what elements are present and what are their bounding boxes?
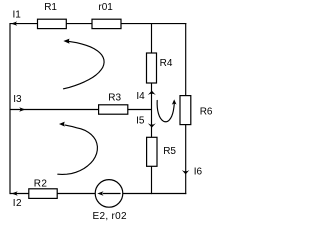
source E2 internal arrow	[103, 193, 121, 195]
current arrow I3	[19, 107, 25, 111]
wire right vertical upper	[185, 23, 187, 96]
svg-text:R4: R4	[160, 58, 173, 69]
svg-text:R3: R3	[108, 92, 121, 103]
svg-text:R5: R5	[163, 146, 176, 157]
svg-text:r01: r01	[98, 2, 113, 13]
wire top-left segment	[10, 23, 38, 25]
wire R2 to source E2	[57, 193, 95, 195]
mesh loop arrow right	[157, 100, 174, 121]
wire R3 to middle node	[128, 109, 152, 111]
svg-text:R1: R1	[44, 2, 57, 13]
resistor R2	[29, 189, 57, 199]
svg-text:I6: I6	[194, 167, 203, 178]
wire between R1 and r01	[66, 23, 92, 25]
resistor R1	[38, 19, 67, 28]
wire middle vertical upper (top node to R4)	[151, 23, 153, 53]
svg-text:R2: R2	[34, 179, 48, 190]
resistor R4	[147, 53, 157, 83]
svg-text:I2: I2	[13, 198, 22, 209]
current arrow I5	[148, 123, 156, 127]
current arrow I1	[11, 21, 17, 25]
svg-text:E2, r02: E2, r02	[93, 211, 127, 222]
resistor R5	[147, 137, 157, 166]
wire left vertical branch	[9, 23, 11, 194]
wire R5 to bottom node	[151, 166, 153, 194]
current arrow I2	[12, 191, 18, 195]
wire r01 to top-right corner	[121, 23, 186, 25]
svg-text:I4: I4	[136, 91, 145, 102]
svg-text:I5: I5	[136, 116, 145, 127]
wire source to bottom-right corner	[123, 193, 187, 195]
wire R4 to middle node	[151, 83, 153, 110]
wire right vertical lower	[185, 125, 187, 195]
svg-text:I1: I1	[13, 10, 22, 21]
mesh loop arrow bottom-left	[58, 125, 98, 174]
svg-text:R6: R6	[200, 107, 213, 118]
current arrow I4	[148, 91, 156, 95]
resistor r01	[92, 19, 121, 28]
resistor R3	[99, 105, 128, 114]
svg-text:I3: I3	[13, 94, 22, 105]
source E2 circle	[95, 180, 123, 208]
mesh loop arrow top-left	[64, 41, 105, 89]
current arrow I6	[182, 170, 190, 174]
wire middle node to R5	[151, 110, 153, 138]
wire middle horizontal left segment	[10, 109, 99, 111]
resistor R6	[180, 96, 191, 125]
wire bottom-left segment	[10, 193, 29, 195]
